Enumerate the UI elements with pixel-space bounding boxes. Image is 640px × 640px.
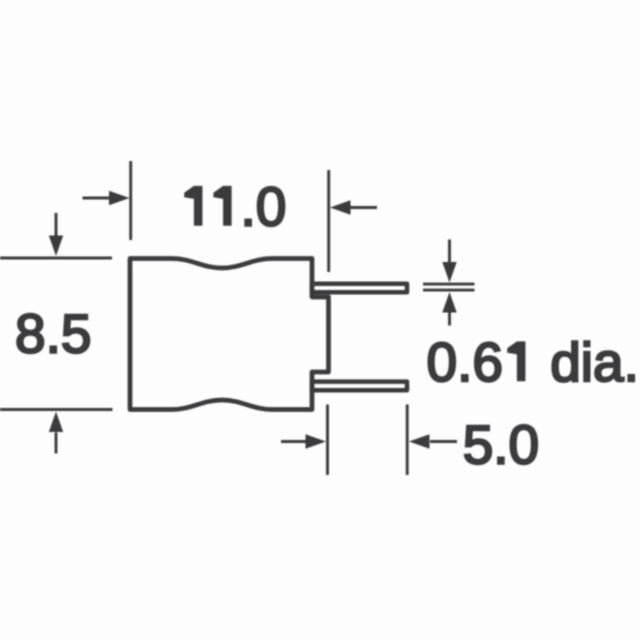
dim 0.61 up arrow bbox=[448, 312, 451, 326]
dim 5.0 right-pointing arrow bbox=[281, 440, 307, 443]
svg-text:5.0: 5.0 bbox=[463, 413, 539, 475]
digit 1 of 11.0 (second) bbox=[213, 186, 231, 226]
dim 0.61 down arrow bbox=[448, 240, 451, 263]
lower lead bbox=[312, 382, 407, 391]
dim 11.0 right extension line bbox=[327, 170, 330, 272]
dim 5.0 left-pointing arrow bbox=[430, 440, 457, 443]
dim 8.5 down arrow bbox=[55, 213, 58, 236]
inductor body outline bbox=[130, 259, 329, 410]
dim 8.5 up arrow bbox=[55, 433, 58, 454]
dim 8.5 top extension line bbox=[0, 257, 112, 260]
digit 1 of 11.0 (first) bbox=[184, 186, 202, 226]
dim 0.61 lower extension line bbox=[423, 289, 475, 292]
dim 11.0 right arrow bbox=[349, 206, 377, 209]
svg-text:.0: .0 bbox=[241, 176, 287, 238]
svg-text:dia.: dia. bbox=[550, 331, 639, 393]
digit 1 of 0.61 bbox=[507, 341, 525, 381]
dim 11.0 left extension line bbox=[129, 161, 132, 240]
dim 0.61 upper extension line bbox=[423, 283, 475, 286]
dim 5.0 left extension line bbox=[326, 405, 329, 476]
upper lead bbox=[312, 284, 407, 293]
dim 8.5 bottom extension line bbox=[0, 408, 113, 411]
dim 5.0 right extension line bbox=[406, 405, 409, 476]
svg-text:8.5: 8.5 bbox=[15, 302, 91, 364]
svg-text:0.6: 0.6 bbox=[427, 331, 503, 393]
dim 11.0 left arrow bbox=[83, 197, 112, 200]
